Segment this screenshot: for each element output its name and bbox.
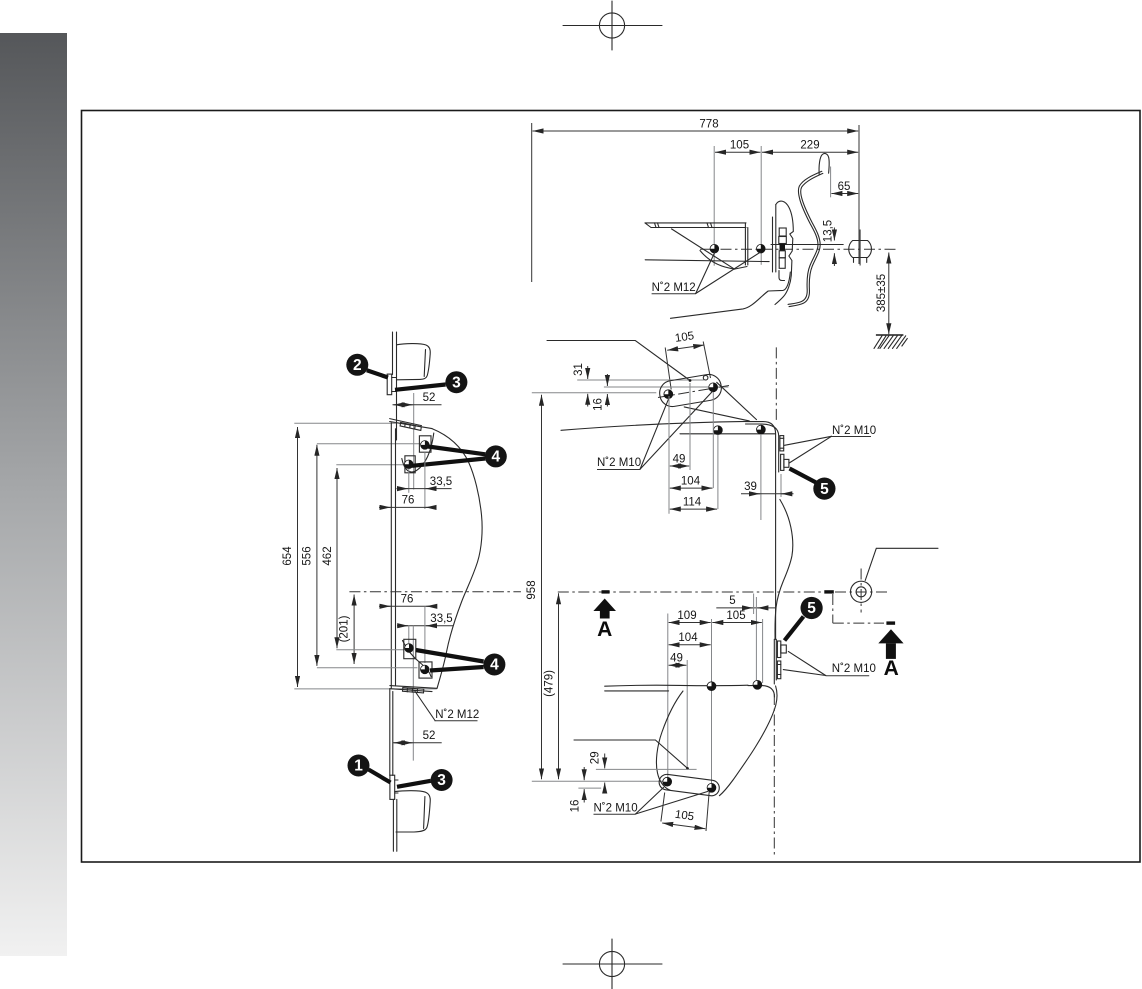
svg-text:1: 1: [354, 758, 363, 775]
dim 105 (lower, slanted) extension lines: [661, 793, 665, 822]
svg-text:A: A: [597, 618, 612, 641]
rail right edge: [775, 472, 777, 639]
dim 105 (lower horizontal): [712, 622, 762, 624]
bolt M10 lower-right: [707, 783, 716, 792]
svg-text:31: 31: [573, 363, 585, 376]
hitch top reference line: [771, 244, 843, 246]
dim 105: [715, 151, 760, 153]
svg-text:104: 104: [681, 475, 701, 487]
extension row 654 top: [294, 422, 396, 424]
drawbar tick marks: [655, 223, 657, 228]
svg-text:4: 4: [491, 449, 500, 466]
bolt M12 upper (plan): [421, 441, 430, 450]
extension row dot (29 top row): [596, 768, 697, 770]
crossmember step (top): [390, 419, 422, 426]
small hook detail: [779, 271, 785, 281]
rail elbow (bottom right): [748, 686, 775, 697]
reference columns for dim 5: [753, 594, 755, 615]
dim 16 (upper): [606, 374, 608, 386]
svg-text:(479): (479): [544, 670, 556, 697]
dim 385±35: [888, 253, 890, 335]
balloon 4 (bottom): [416, 650, 506, 676]
bolt M10 lower-left: [663, 777, 672, 786]
bolt M10 (right end of rail bottom): [753, 680, 762, 689]
bolt plate upper-right: [419, 436, 431, 452]
bolt-slot column reference (top): [413, 393, 415, 490]
svg-text:109: 109: [677, 610, 696, 622]
dim 33,5 (top): [397, 488, 452, 490]
balloon 5 (top): [790, 469, 836, 500]
bolt plate upper-left (bottom cluster): [404, 639, 416, 658]
rail bottom edges: [392, 799, 394, 851]
bumper edge reference line: [830, 167, 832, 198]
section arrow A (left): [593, 599, 616, 642]
top registration mark: [563, 1, 662, 50]
dim 958: [541, 395, 543, 780]
rail right edge near side plates (bottom): [773, 639, 775, 684]
dim 105 (upper, slanted): [667, 345, 704, 350]
svg-text:A: A: [884, 657, 899, 680]
ball vertical axis: [859, 230, 861, 266]
vehicle centre line (vertical dash-dot, lower): [773, 694, 775, 858]
striker plate details: [779, 228, 786, 236]
extension row flange (16 bottom row): [578, 787, 601, 789]
dim 39: [741, 493, 794, 495]
ground hatching: [874, 336, 907, 349]
plate axis (dash-dot): [658, 386, 729, 398]
dim 105 (upper, slanted) extension lines: [665, 348, 671, 390]
svg-text:76: 76: [402, 494, 415, 506]
drawbar underside diagonal: [672, 229, 735, 269]
leader from ball: [865, 548, 938, 580]
dim 16 (lower): [583, 767, 585, 780]
balloon 2: [346, 354, 388, 378]
extension row left bolt / 958 top: [532, 392, 657, 394]
dim 462: [336, 468, 338, 648]
drawing border frame: [82, 111, 1141, 863]
bottom extension row (958/479): [532, 780, 668, 782]
bold section dash (left of centre): [602, 590, 610, 593]
balloon 3 (bottom): [397, 769, 453, 791]
rail below step: [389, 689, 391, 776]
bolt column references (bottom cluster): [424, 606, 426, 663]
svg-text:654: 654: [282, 546, 294, 566]
leader to lower-left bolt: [636, 788, 664, 815]
bracket arm lines: [684, 407, 749, 421]
side plate lower with tab: [781, 454, 784, 470]
svg-text:2: 2: [353, 357, 362, 374]
dim 105 (lower, slanted): [662, 823, 705, 829]
centre line of vehicle (dash-dot): [349, 591, 521, 593]
svg-text:33,5: 33,5: [430, 613, 452, 625]
balloon 5 (bottom): [785, 597, 823, 641]
extension column bolt 2: [760, 146, 762, 265]
tow ball (rear view): [851, 581, 872, 602]
dim 31: [587, 366, 589, 379]
leader to upper plate (bottom group): [788, 651, 825, 675]
drawbar top edge (double line): [645, 222, 746, 224]
plate small hole: [703, 375, 708, 380]
svg-text:76: 76: [401, 593, 414, 605]
dim 29: [604, 754, 606, 769]
side plate lower (bottom group): [777, 661, 780, 679]
leader to bolt left: [696, 252, 715, 294]
left gray gradient sidebar: [0, 33, 67, 956]
leader to lower plate (bottom group): [783, 670, 825, 676]
dim (479): [558, 593, 560, 779]
end plate tab (bottom): [390, 775, 395, 799]
svg-text:16: 16: [570, 800, 582, 813]
plate centre dot (bottom): [686, 767, 689, 770]
extension row 462 bottom: [336, 649, 404, 651]
svg-text:5: 5: [729, 595, 735, 607]
svg-text:52: 52: [423, 392, 436, 404]
leader to upper-right bolt: [640, 391, 713, 469]
dim 65: [831, 193, 858, 195]
wheel arch top: [397, 344, 431, 380]
dim 104 (upper): [670, 487, 713, 489]
bolt M12 left: [710, 244, 719, 253]
dim 5: [716, 607, 775, 609]
extension line right (778/229/65): [858, 125, 860, 264]
side plate upper (right of rail): [780, 436, 784, 451]
drawbar underside arc: [700, 251, 747, 270]
dim 52 (top): [393, 404, 442, 406]
end plate tab (top): [387, 374, 392, 395]
svg-text:N˚2 M10: N˚2 M10: [594, 803, 638, 815]
rail inner S-curve: [656, 691, 683, 790]
svg-text:462: 462: [322, 546, 334, 565]
dim 778: [533, 130, 859, 132]
plate centre dot: [689, 379, 692, 382]
rail top edges: [392, 332, 394, 375]
svg-text:556: 556: [302, 546, 314, 565]
detail box (dash-dot): [832, 594, 834, 623]
dim 114: [670, 508, 717, 510]
dim 229: [762, 151, 858, 153]
bottom registration mark: [563, 939, 662, 989]
centre line horizontal (dash-dot): [558, 591, 823, 593]
rear panel inner verticals: [772, 217, 774, 272]
svg-text:114: 114: [683, 496, 702, 508]
dim 109: [669, 622, 711, 624]
rail bottom edge: [605, 685, 748, 686]
bolt M12 right: [757, 244, 766, 253]
dim 76 (top): [379, 506, 434, 508]
drawbar left tip: [645, 223, 651, 228]
extension column bolt 1: [713, 146, 715, 266]
svg-text:229: 229: [800, 140, 819, 152]
bolt plate lower-left: [405, 456, 415, 473]
bracket corner arc (bottom cluster): [403, 641, 432, 677]
bold dash at detail box end: [886, 621, 895, 624]
svg-text:958: 958: [526, 580, 538, 599]
dim 654: [297, 427, 299, 687]
reference leader from top view to upper bracket: [547, 341, 690, 381]
bolt M12 lower (bottom cluster): [420, 665, 429, 674]
svg-text:5: 5: [820, 481, 829, 498]
svg-text:N˚2 M10: N˚2 M10: [597, 457, 641, 469]
svg-text:105: 105: [730, 140, 749, 152]
tow ball (side view): [849, 241, 872, 258]
extension columns lower cluster: [667, 614, 669, 781]
dim (201): [353, 595, 355, 665]
svg-text:49: 49: [670, 653, 683, 665]
extension row 462 top: [336, 464, 406, 466]
extension row 556/(201) bottom: [317, 667, 418, 669]
bolt M12 upper (bottom cluster): [405, 644, 414, 653]
bolt M10 row (right, upper): [714, 426, 723, 435]
svg-text:105: 105: [726, 610, 745, 622]
extension row upper bracket (16 top): [604, 386, 729, 388]
body edge going down from elbow: [719, 686, 777, 796]
dim 52 (bottom): [393, 742, 442, 744]
rail web edges: [390, 423, 392, 689]
dim 13,5 arrows: [833, 228, 835, 241]
bolt M12 lower (plan): [405, 460, 414, 469]
svg-text:N˚2 M10: N˚2 M10: [832, 663, 876, 675]
svg-text:(201): (201): [339, 615, 351, 642]
lower sill line: [671, 272, 791, 318]
bold section dash (right of centre): [824, 590, 834, 593]
drawbar right end verticals: [744, 223, 746, 265]
svg-text:385±35: 385±35: [876, 274, 888, 312]
svg-text:4: 4: [490, 657, 499, 674]
svg-text:33,5: 33,5: [430, 476, 452, 488]
drawbar lower slant line: [645, 260, 769, 262]
extension row 654 bottom: [294, 688, 437, 690]
dim 49 (upper): [670, 465, 689, 467]
dim 556: [316, 445, 318, 666]
crossmember step (bottom): [390, 686, 437, 689]
dim 49 (lower): [669, 664, 687, 666]
leader to upper side plate: [785, 436, 832, 445]
reference leader to lower bracket dot: [574, 740, 688, 768]
rear panel outline: [775, 201, 793, 304]
wheel arch bottom: [395, 791, 431, 832]
svg-text:52: 52: [423, 730, 436, 742]
body side outline (right bulge): [432, 429, 482, 689]
bumper inner profile: [789, 173, 823, 306]
bolt column references (top cluster): [408, 469, 410, 493]
svg-text:5: 5: [807, 600, 816, 617]
extension columns upper cluster: [668, 396, 670, 514]
lower bracket plate: [658, 773, 720, 796]
bolt M10 (middle of rail bottom): [707, 682, 716, 691]
dim 76 (bottom): [379, 605, 434, 607]
leader to lower-right bolt: [636, 792, 708, 815]
bumper hook (top): [819, 153, 829, 174]
svg-text:778: 778: [699, 119, 718, 131]
svg-text:29: 29: [590, 751, 602, 764]
side plate upper (bottom group): [777, 641, 780, 658]
centre line (dash-dot) through bolts and ball: [700, 248, 897, 250]
beam lower edge: [680, 433, 776, 435]
bolt M10 upper-left: [664, 390, 673, 399]
svg-text:3: 3: [437, 772, 446, 789]
svg-text:104: 104: [678, 632, 698, 644]
extension row upper bracket (31 top): [577, 379, 704, 381]
rail elbow (top right, double line): [746, 422, 776, 472]
leader to lower side plate: [789, 436, 831, 463]
bumper outer profile: [788, 171, 822, 304]
leader to bolt right: [696, 252, 761, 293]
dim 33,5 (bottom): [397, 625, 453, 627]
svg-text:N˚2 M10: N˚2 M10: [832, 425, 876, 437]
bolt M10 upper-right: [709, 383, 718, 392]
svg-text:65: 65: [838, 181, 851, 193]
svg-text:13,5: 13,5: [823, 220, 835, 242]
bolt plate lower-right (bottom cluster): [419, 662, 432, 678]
section arrow A (right): [878, 629, 903, 680]
svg-text:N˚2 M12: N˚2 M12: [652, 282, 696, 294]
ball neck lines: [853, 258, 855, 263]
vehicle centre line (vertical dash-dot, upper): [775, 347, 777, 420]
body side outline (right): [775, 500, 793, 640]
extension line left (778): [531, 123, 533, 282]
svg-text:39: 39: [744, 481, 757, 493]
svg-text:N˚2 M12: N˚2 M12: [435, 709, 479, 721]
balloon 4 (top): [412, 445, 507, 467]
svg-text:16: 16: [592, 398, 604, 411]
leader to upper-left bolt: [640, 398, 669, 470]
leader to step flange: [415, 691, 436, 721]
beam top edge curve: [561, 421, 747, 430]
ground line: [876, 334, 904, 336]
upper bracket plate: [658, 373, 723, 409]
svg-text:49: 49: [673, 453, 686, 465]
balloon 3 (top): [395, 371, 467, 393]
bracket corner arc (top cluster): [402, 433, 434, 472]
extension row 556 top: [317, 443, 421, 445]
svg-text:3: 3: [452, 374, 461, 391]
dim 104 (lower): [669, 644, 711, 646]
balloon 1: [348, 755, 391, 783]
